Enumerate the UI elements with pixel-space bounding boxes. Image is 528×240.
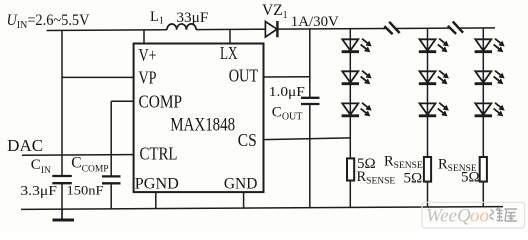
svg-text:33μF: 33μF <box>176 10 208 26</box>
svg-text:150nF: 150nF <box>67 183 104 198</box>
wire: CIN to ground rail <box>61 183 63 209</box>
svg-text:CCOMP: CCOMP <box>71 155 108 175</box>
wire: PGND to ground rail <box>155 192 157 209</box>
wire: output node drop from top rail <box>309 29 311 98</box>
svg-text:RSENSE: RSENSE <box>384 154 423 172</box>
svg-text:WeeQ: WeeQ <box>426 206 471 227</box>
break mark 1 <box>384 22 399 34</box>
watermark box <box>422 202 525 228</box>
wire: CCOMP to ground rail <box>110 183 112 209</box>
wire: top rail right segment <box>460 27 495 29</box>
wire: OUT pin to output node <box>264 76 310 78</box>
wire: RSENSE1 to ground rail <box>349 181 351 208</box>
svg-text:1.0μF: 1.0μF <box>269 84 306 99</box>
wire: LED column 2 <box>427 28 429 157</box>
svg-text:LX: LX <box>220 43 238 63</box>
capacitor CIN <box>52 176 72 183</box>
svg-text:CS: CS <box>238 130 257 150</box>
wire: top rail between inductor and diode <box>196 28 266 30</box>
wire: top input rail left segment <box>47 29 168 32</box>
wire: left input rail down to CIN <box>61 30 63 176</box>
resistor RSENSE1 <box>347 158 354 180</box>
wire: LED column 3 <box>482 28 484 157</box>
wire: COUT to ground rail <box>309 104 311 208</box>
wire: bottom ground rail <box>21 207 503 210</box>
LED D1 <box>342 39 372 53</box>
wire: COMP down to CCOMP <box>110 101 112 176</box>
wire: GND to ground rail <box>243 192 245 208</box>
svg-text:DAC: DAC <box>7 136 43 155</box>
LED D6 <box>419 103 449 117</box>
svg-text:L1: L1 <box>150 9 164 27</box>
svg-text:PGND: PGND <box>135 175 179 192</box>
LED D8 <box>475 71 505 85</box>
wire: LED column 1 <box>349 29 351 159</box>
svg-text:OUT: OUT <box>229 66 259 86</box>
ground <box>53 209 75 220</box>
LED D4 <box>419 39 449 53</box>
wire: LX drop from top rail <box>229 29 231 43</box>
resistor RSENSE3 <box>480 157 487 182</box>
svg-text:CIN: CIN <box>31 157 51 176</box>
svg-text:oo: oo <box>470 206 489 227</box>
wire: RSENSE2 to ground rail <box>427 182 429 207</box>
svg-text:3.3μF: 3.3μF <box>20 183 57 198</box>
op-amp U1 MAX1848 box <box>134 44 264 193</box>
wire: top rail diode to first break <box>277 28 385 31</box>
svg-text:COMP: COMP <box>139 92 183 112</box>
wire: DAC to CTRL pin <box>22 154 134 157</box>
svg-text:RSENSE: RSENSE <box>357 169 396 187</box>
LED D3 <box>342 103 372 117</box>
svg-text:COUT: COUT <box>272 105 303 123</box>
LED D5 <box>419 71 449 85</box>
svg-text:VP: VP <box>139 67 157 87</box>
capacitor COUT <box>301 98 320 104</box>
svg-text:MAX1848: MAX1848 <box>170 115 235 136</box>
LED D2 <box>342 71 372 85</box>
resistor RSENSE2 <box>424 157 431 182</box>
wire: RSENSE3 to ground rail <box>482 182 484 207</box>
svg-text:CTRL: CTRL <box>140 144 178 164</box>
capacitor CCOMP <box>102 176 121 183</box>
LED D7 <box>475 39 505 53</box>
wire: VP pin to left rail <box>62 76 134 78</box>
svg-text:UIN=2.6~5.5V: UIN=2.6~5.5V <box>7 12 90 31</box>
svg-text:5Ω: 5Ω <box>404 171 423 187</box>
inductor L1 <box>167 24 196 30</box>
svg-text:VZ1: VZ1 <box>262 2 288 21</box>
wire: COMP pin stub <box>111 100 133 102</box>
wire: CS pin to sense node <box>264 138 351 140</box>
wire: V+ drop from top rail <box>143 30 145 44</box>
diode VZ1 <box>265 21 277 37</box>
LED D9 <box>475 103 505 117</box>
wire: top rail between breaks <box>396 27 449 29</box>
svg-text:1A/30V: 1A/30V <box>291 14 339 30</box>
svg-text:V+: V+ <box>139 45 157 65</box>
svg-text:5Ω: 5Ω <box>461 170 480 186</box>
svg-text:GND: GND <box>224 176 258 193</box>
break mark 2 <box>448 22 463 34</box>
